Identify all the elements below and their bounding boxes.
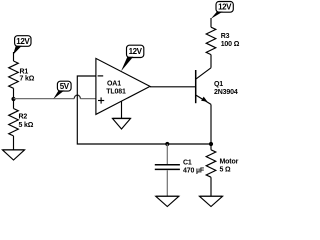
wire (op-amp V- stub) (121, 101, 123, 118)
svg-text:12V: 12V (129, 47, 143, 56)
svg-text:OA1: OA1 (107, 80, 121, 87)
capacitor C1 470 µF (155, 144, 205, 196)
transistor Q1 2N3904 (196, 56, 238, 105)
power flag 12V (op-amp V+) (121, 45, 144, 71)
ground (below motor) (200, 196, 223, 206)
ground (below C1) (156, 196, 179, 206)
resistor R2 5 kΩ (9, 99, 34, 150)
wire (12V flag to R3 top) (210, 18, 212, 27)
svg-text:R1: R1 (20, 68, 29, 75)
motor M1 (Motor 5 Ω, drawn as resistor) (206, 144, 238, 196)
svg-text:470 µF: 470 µF (183, 168, 205, 175)
svg-text:R2: R2 (19, 114, 28, 121)
op-amp OA1 TL081 (96, 58, 150, 114)
resistor R3 100 Ω (206, 27, 240, 55)
svg-text:100 Ω: 100 Ω (221, 41, 240, 48)
svg-text:R3: R3 (221, 33, 230, 40)
wire (12V flag to R1 top) (13, 52, 15, 61)
wire (Q1 emitter down to node B) (210, 104, 212, 144)
svg-text:7 kΩ: 7 kΩ (20, 76, 35, 83)
power flag 12V (right, node V12 right) (211, 2, 233, 19)
node B (emitter / C1 / motor junction) (165, 142, 169, 146)
ground (op-amp V-) (113, 119, 131, 130)
wire (feedback: - input run left, down, along bottom to node B) (77, 76, 211, 144)
node A (R1/R2 junction, 5V net) (11, 97, 15, 101)
svg-text:5 Ω: 5 Ω (220, 166, 232, 173)
svg-text:C1: C1 (183, 160, 192, 167)
svg-text:Motor: Motor (220, 158, 239, 165)
wire (5V net: junction to op-amp + input, gray, hop over feedback) (14, 98, 96, 100)
svg-text:2N3904: 2N3904 (214, 89, 238, 96)
wire (op-amp output to Q1 base) (150, 86, 196, 88)
svg-text:5V: 5V (60, 82, 70, 91)
svg-text:5 kΩ: 5 kΩ (19, 122, 34, 129)
svg-text:12V: 12V (16, 37, 30, 46)
svg-text:Q1: Q1 (214, 81, 223, 88)
resistor R1 7 kΩ (9, 61, 35, 99)
voltage label 5V (53, 81, 71, 99)
power flag 12V (left, node V12 left) (13, 36, 31, 55)
svg-text:12V: 12V (218, 3, 232, 12)
ground (below R2) (3, 150, 25, 160)
svg-text:TL081: TL081 (106, 89, 126, 96)
